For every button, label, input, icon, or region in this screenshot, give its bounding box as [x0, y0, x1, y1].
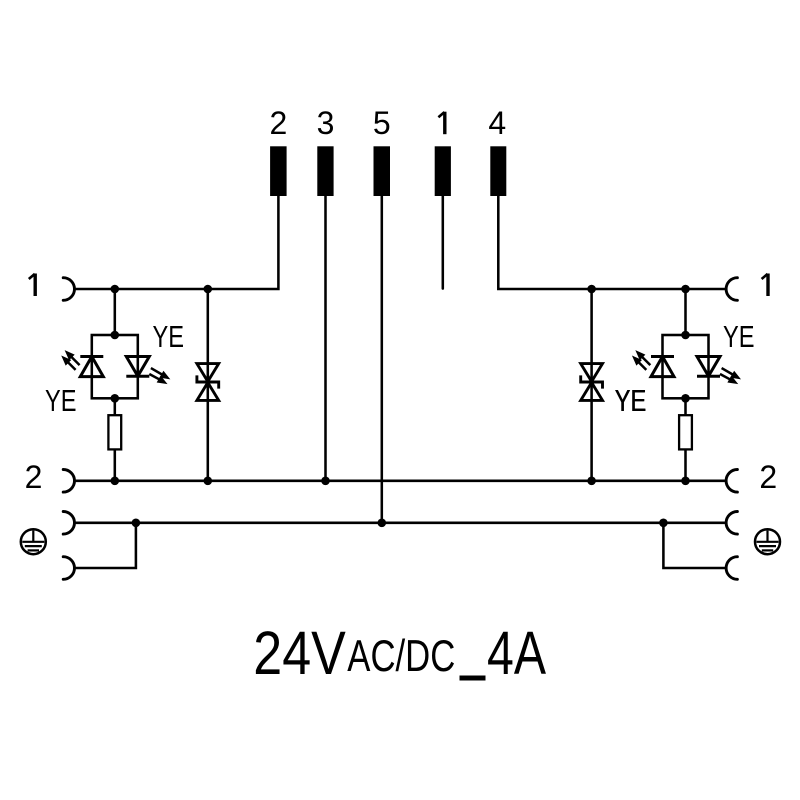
wire left suppressor branch: [207, 289, 210, 481]
junction PE right stub: [659, 519, 668, 528]
svg-text:3: 3: [317, 105, 335, 141]
svg-text:4: 4: [488, 105, 506, 141]
junction bus2 right LED: [681, 477, 690, 486]
svg-text:2: 2: [25, 459, 43, 495]
LED D3 light arrows: [633, 351, 650, 370]
junction bus2 right suppressor: [587, 477, 596, 486]
wire PE stub right: [663, 523, 726, 568]
socket contact 1 left: [63, 278, 74, 301]
junction bus1 right suppressor: [587, 285, 596, 294]
resistor right: [679, 415, 692, 449]
junction right box top: [681, 331, 690, 340]
socket contact 2 right: [726, 470, 737, 493]
LED D1 light arrows: [62, 351, 79, 370]
wire right box to resistor: [684, 398, 687, 415]
junction bus1 left LED: [111, 285, 120, 294]
pin 1 label: [438, 112, 444, 135]
protective earth symbol right: [755, 529, 780, 554]
pin 1 contact bar: [435, 146, 451, 196]
resistor left: [108, 415, 121, 449]
junction bus2 left suppressor: [204, 477, 213, 486]
wire resistor to bus 2: [114, 449, 117, 480]
svg-text:AC/DC: AC/DC: [347, 632, 455, 681]
wire right LED branch upper: [684, 289, 687, 335]
svg-text:2: 2: [270, 105, 288, 141]
LED D4 yellow (right box, conducts down): [697, 357, 720, 377]
wire pin 4 to right bus 1: [498, 196, 726, 289]
caption underscore: [460, 676, 486, 681]
wire bus 2: [75, 480, 726, 483]
junction bus1 left suppressor: [204, 285, 213, 294]
wire PE bus: [75, 522, 726, 525]
junction bus2 pin3: [321, 477, 330, 486]
junction right box bottom: [681, 394, 690, 403]
junction bus2 left LED: [111, 477, 120, 486]
junction bus1 right LED: [681, 285, 690, 294]
wire pin 5 to PE bus: [381, 196, 384, 523]
svg-text:YE: YE: [723, 319, 755, 354]
svg-text:2: 2: [759, 459, 777, 495]
LED D3 yellow (right box, conducts up): [651, 357, 674, 377]
svg-text:YE: YE: [45, 383, 77, 418]
socket contact PE left upper: [63, 512, 74, 535]
junction left box bottom: [111, 394, 120, 403]
label 1 right: [762, 274, 768, 297]
wire pin 3 to bus 2: [324, 196, 327, 481]
wire PE stub left: [74, 523, 136, 568]
svg-text:YE: YE: [615, 383, 647, 418]
suppressor diode right (bidirectional): [581, 364, 603, 401]
wire pin 2 to left bus 1: [75, 196, 279, 289]
pin 3 contact bar: [317, 146, 333, 196]
socket contact PE left lower: [63, 557, 74, 580]
LED D2 light arrows: [149, 368, 169, 383]
protective earth symbol left: [21, 529, 46, 554]
suppressor diode left (bidirectional): [197, 364, 219, 401]
junction left box top: [111, 331, 120, 340]
wire resistor right to bus 2: [684, 449, 687, 480]
svg-text:5: 5: [373, 105, 391, 141]
pin 4 contact bar: [490, 146, 506, 196]
pin 2 contact bar: [270, 146, 287, 196]
junction PE left stub: [132, 519, 141, 528]
LED D1 yellow (left box, conducts up): [80, 357, 103, 377]
junction PE pin5: [378, 519, 387, 528]
LED D4 light arrows: [720, 368, 740, 383]
LED pair box right: [663, 335, 709, 398]
label 1 left: [29, 274, 35, 297]
wire right suppressor branch: [590, 289, 593, 481]
pin 5 contact bar: [374, 146, 391, 196]
wire left box to resistor: [114, 398, 117, 415]
svg-text:YE: YE: [153, 319, 185, 354]
socket contact 1 right: [726, 278, 737, 301]
svg-text:4A: 4A: [487, 619, 546, 688]
LED pair box left: [92, 335, 138, 398]
socket contact 2 left: [63, 470, 74, 493]
socket contact PE right upper: [726, 512, 737, 535]
wire pin 1 open end: [442, 196, 445, 289]
wire left LED branch upper: [114, 289, 117, 335]
svg-text:24V: 24V: [253, 619, 345, 688]
LED D2 yellow (left box, conducts down): [126, 357, 149, 377]
socket contact PE right lower: [726, 557, 737, 580]
